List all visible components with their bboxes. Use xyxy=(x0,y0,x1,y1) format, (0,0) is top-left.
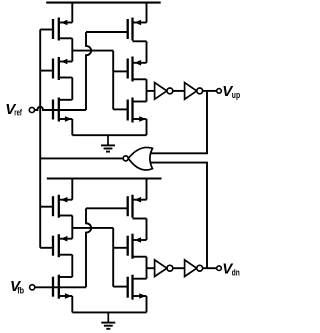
inverter U3 xyxy=(155,260,173,277)
wire M8 drain to M9 drain xyxy=(71,255,73,277)
wire VDD drop to M1 source xyxy=(71,3,73,23)
transistor M12 (NMOS bottom-block right row3) xyxy=(128,275,147,300)
wire reset vertical line xyxy=(39,30,41,248)
wire M12 gate lead xyxy=(113,286,126,288)
transistor M8 (PMOS bottom-block left row2) xyxy=(53,234,72,257)
wire output node to inverter U1 input xyxy=(147,90,155,92)
inverter U1 xyxy=(155,83,173,100)
wire M10 drain to M11 source xyxy=(146,219,148,241)
transistor M11 (PMOS bottom-block right row2) xyxy=(128,234,147,259)
node Vref input terminal xyxy=(29,107,34,112)
wire cross branch from left chain to right gates xyxy=(72,50,113,52)
wire output node to inverter U3 input xyxy=(147,267,155,269)
wire cross branch bottom block xyxy=(72,227,113,229)
wire rail drop to M7 source xyxy=(71,179,73,200)
transistor M5 (PMOS right row2) xyxy=(128,57,147,82)
wire M5 drain to M6 source (output node E) xyxy=(146,79,148,101)
wire M12 source to ground rail xyxy=(146,296,148,312)
label Vref xyxy=(5,101,22,118)
wire M2 gate lead xyxy=(40,70,52,72)
wire M1 gate lead xyxy=(40,29,52,31)
wire M10 gate lead xyxy=(86,207,127,209)
transistor M1 (PMOS top-left) xyxy=(53,18,72,41)
label Vup xyxy=(222,83,240,100)
wire rail drop to M10 source xyxy=(146,179,148,200)
ground symbol bottom block xyxy=(101,312,115,328)
wire VDD drop to M4 source xyxy=(146,3,148,23)
node Vup output terminal xyxy=(217,89,222,94)
wire M8 gate lead xyxy=(40,247,52,249)
transistor M4 (PMOS top-right) xyxy=(128,18,147,42)
wire U3 to U4 xyxy=(173,267,185,269)
wire Vref line with hop over reset line xyxy=(35,107,87,110)
wire VDD rail bottom block xyxy=(47,177,162,179)
wire Vfb line xyxy=(35,286,86,288)
wire M7 drain to M8 source xyxy=(71,216,73,239)
wire M3 source down to ground rail xyxy=(71,119,73,135)
inverter U2 xyxy=(185,83,203,100)
wire Vref riser with hop over cross branch xyxy=(86,32,91,110)
svg-text:dn: dn xyxy=(232,268,240,278)
wire M7 gate lead xyxy=(40,206,52,208)
wire ground rail top block xyxy=(72,134,146,136)
label Vdn xyxy=(222,260,240,277)
wire ground rail bottom block xyxy=(72,311,146,313)
wire M11 gate lead xyxy=(113,247,126,249)
wire M1 drain to M2 source (node chain) xyxy=(71,38,73,61)
wire M6 source to ground rail xyxy=(146,119,148,135)
label Vfb xyxy=(10,278,24,295)
wire M6 gate lead xyxy=(113,108,126,110)
wire M11 drain to M12 source (output node) xyxy=(146,257,148,279)
svg-text:up: up xyxy=(232,90,241,100)
wire Vup node down to NOR input A xyxy=(150,91,207,153)
wire U2 output to Vup terminal xyxy=(203,90,217,92)
wire M2 drain to M3 drain xyxy=(71,78,73,100)
node Vfb input terminal xyxy=(30,285,35,290)
transistor M2 (PMOS left row2) xyxy=(53,57,72,80)
transistor M10 (PMOS bottom-block top-right) xyxy=(128,195,147,219)
wire M4 drain to M5 source xyxy=(146,41,148,63)
wire NOR input B from Vdn node xyxy=(150,163,207,269)
wire internal node vertical to M5/M6 gates xyxy=(112,51,114,110)
gate NOR1 (mirrored, output at left) xyxy=(123,147,152,170)
svg-text:ref: ref xyxy=(14,107,22,117)
wire internal node vertical to M11/M12 gates xyxy=(112,228,114,287)
wire M4 gate lead xyxy=(86,31,127,33)
wire U4 output to Vdn terminal xyxy=(203,267,217,269)
transistor M7 (PMOS bottom-block top-left) xyxy=(53,195,72,218)
wire Vfb riser with hop over cross branch xyxy=(86,208,91,287)
transistor M6 (NMOS right row3) xyxy=(128,98,147,123)
node Vdn output terminal xyxy=(217,266,222,271)
wire NOR output (reset) to reset line xyxy=(40,157,123,159)
ground symbol top block xyxy=(101,135,115,151)
transistor M3 (NMOS left row3, gate driven by Vref) xyxy=(53,98,72,122)
wire M5 gate lead xyxy=(113,70,126,72)
wire U1 to U2 xyxy=(173,90,185,92)
wire M9 source down to ground rail xyxy=(71,296,73,312)
svg-text:fb: fb xyxy=(17,285,24,295)
transistor M9 (NMOS bottom-block left row3, gate driven by Vfb) xyxy=(53,275,72,299)
wire VDD rail top block xyxy=(46,2,161,4)
inverter U4 xyxy=(185,260,203,277)
